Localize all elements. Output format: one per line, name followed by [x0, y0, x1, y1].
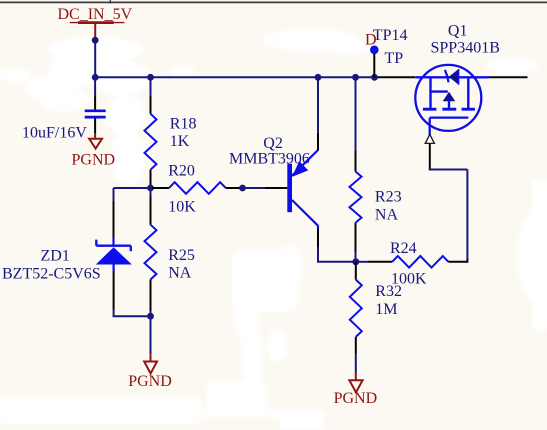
wire R18 to node	[150, 170, 152, 186]
wire node to R20	[152, 187, 169, 189]
svg-text:TP14: TP14	[373, 27, 408, 44]
wire node to R25	[150, 188, 152, 225]
junction rail at TP14	[371, 74, 378, 81]
junction rail at Q2 emitter	[315, 74, 322, 81]
mosfet Q1 substrate arrow	[443, 92, 456, 101]
wire drain stub right of Q1	[489, 76, 528, 78]
test point TP14 pad	[370, 46, 379, 55]
wire 5V rail (black part to Q1)	[375, 76, 416, 78]
wire base node to Q2 base	[243, 187, 288, 189]
wire R25 to lower node	[150, 280, 152, 317]
svg-text:PGND: PGND	[72, 151, 116, 168]
wire cap to ground	[94, 118, 96, 139]
wire R32 to ground	[355, 337, 357, 381]
wire rail to R18	[150, 77, 152, 114]
junction rail at R18 branch	[147, 74, 154, 81]
svg-text:R24: R24	[390, 240, 417, 257]
wire gate net vertical (navy)	[466, 170, 468, 260]
sheet border top line	[0, 1, 547, 3]
wire gate net horizontal (navy)	[429, 169, 468, 171]
node dot on DC_IN stem	[92, 37, 99, 44]
mosfet Q1 source-drain chord wire	[415, 76, 489, 78]
wire gate net stub (black)	[429, 143, 431, 170]
resistor R32 1M	[350, 280, 362, 337]
power port DC_IN_5V bar symbol	[70, 23, 125, 40]
node R20/base	[239, 185, 246, 192]
wire R23 to node	[355, 223, 357, 262]
svg-text:10K: 10K	[168, 198, 196, 215]
resistor R18 1K	[145, 114, 157, 170]
mosfet Q1 body diode	[445, 69, 459, 85]
wire node to ground	[150, 316, 152, 362]
svg-text:R20: R20	[168, 162, 195, 179]
wire node to R24	[356, 261, 392, 263]
svg-text:R32: R32	[375, 283, 402, 300]
svg-text:PGND: PGND	[334, 390, 378, 407]
node R23/R24/R32/collector	[352, 258, 359, 265]
mosfet Q1 channel segments	[423, 108, 475, 111]
svg-text:R18: R18	[170, 116, 197, 133]
sheet zone tick	[109, 0, 111, 4]
svg-text:PGND: PGND	[128, 373, 172, 390]
wire ZD1 anode down and to node	[113, 265, 151, 317]
svg-text:10uF/16V: 10uF/16V	[22, 124, 87, 141]
wire DC_IN stem to rail	[94, 40, 96, 77]
svg-text:ZD1: ZD1	[41, 247, 70, 264]
svg-text:R23: R23	[375, 188, 402, 205]
node R18/R20/R25/ZD1	[147, 185, 154, 192]
svg-text:Q1: Q1	[448, 22, 468, 39]
wire TP14 to rail	[373, 54, 375, 78]
zener diode ZD1 BZT52-C5V6S	[96, 240, 132, 265]
junction rail at cap branch	[92, 74, 99, 81]
svg-text:1K: 1K	[170, 133, 190, 150]
wire corner to R24 (black)	[448, 259, 467, 262]
resistor R24 100K	[392, 256, 448, 268]
svg-text:1M: 1M	[375, 301, 397, 318]
capacitor 10uF/16V	[85, 111, 106, 117]
mosfet Q1 gate lead	[429, 118, 431, 135]
mosfet Q1 SPP3401B body circle	[415, 65, 481, 131]
node ZD1/R25/PGND	[147, 313, 154, 320]
mosfet Q1 gate plate	[430, 116, 469, 118]
mosfet Q1 substrate stem	[448, 100, 450, 108]
wire Q2 collector down to node row	[317, 226, 356, 262]
wire 5V rail (navy part)	[95, 76, 374, 78]
wire cap branch	[94, 77, 96, 109]
ground PGND (R32)	[349, 380, 362, 392]
transistor Q2 MMBT3906	[287, 150, 318, 226]
mosfet Q1 drain vertical	[429, 77, 431, 108]
wire rail to R23	[355, 77, 357, 171]
mosfet Q1 substrate line	[431, 90, 448, 92]
svg-text:NA: NA	[375, 206, 399, 223]
wire node to ZD1 branch	[114, 188, 151, 245]
svg-text:SPP3401B: SPP3401B	[431, 39, 500, 56]
wire R32 from node	[355, 262, 357, 280]
svg-text:R25: R25	[168, 247, 195, 264]
ground PGND (capacitor)	[89, 139, 102, 149]
resistor R25 NA	[145, 225, 157, 280]
svg-text:DC_IN_5V: DC_IN_5V	[58, 6, 133, 23]
wire R20 to base node	[226, 187, 240, 189]
resistor R23 NA	[350, 172, 362, 223]
wire rail to Q2 emitter	[317, 77, 319, 150]
junction rail at R23 branch	[352, 74, 359, 81]
open arrow on gate net	[425, 134, 434, 143]
ground PGND (ZD1/R25)	[144, 362, 157, 374]
svg-text:BZT52-C5V6S: BZT52-C5V6S	[2, 266, 101, 283]
mosfet Q1 source vertical	[467, 77, 469, 108]
resistor R20 10K	[169, 182, 226, 194]
svg-text:NA: NA	[168, 264, 192, 281]
svg-text:TP: TP	[385, 50, 404, 67]
